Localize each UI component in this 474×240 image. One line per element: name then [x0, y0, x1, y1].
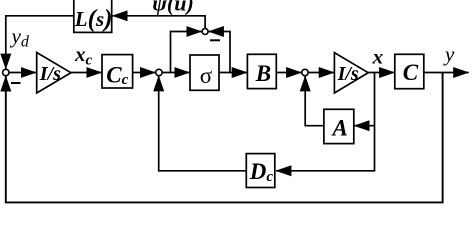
wire S2 output to L(s) input (labeled psi(u)) [112, 16, 205, 29]
integrator T2 (I/s triangle) [334, 53, 368, 93]
summing junction S2 [202, 29, 208, 35]
minus sign at S1 lower input [11, 82, 21, 84]
wire J3 to integrator T2 [308, 72, 334, 74]
svg-text:B: B [255, 61, 271, 86]
wire A output up to junction J3 [305, 76, 324, 126]
wire output y feedback to S1 (outer loop) [6, 73, 443, 203]
minus sign at S2 right input [210, 39, 220, 41]
block Dc [246, 154, 274, 188]
wire J2 to saturation sigma [162, 72, 190, 74]
wire T1 to block Cc [71, 72, 102, 74]
svg-text:ψ(u): ψ(u) [152, 0, 194, 15]
svg-text:σ: σ [200, 63, 213, 88]
wire branch arrow into A [354, 125, 374, 127]
block B [247, 54, 276, 88]
wire L(s) output to summing junction S1 (labeled y_d) [6, 16, 74, 69]
integrator T1 (I/s triangle) [37, 53, 71, 94]
wire S1 to integrator T1 [9, 72, 36, 74]
wire B to junction J3 [276, 72, 301, 74]
svg-text:C: C [403, 60, 419, 85]
junction J2 [156, 69, 162, 75]
wire Dc output up to junction J2 [159, 76, 247, 171]
svg-text:I/s: I/s [337, 63, 359, 85]
wire T2 to block C (labeled x) [368, 72, 394, 74]
output wire y [424, 72, 469, 74]
block A [324, 109, 354, 143]
wire x-state feedback down to Dc [276, 73, 375, 171]
block Cc [102, 55, 133, 89]
saturation block sigma [190, 55, 219, 90]
svg-text:x: x [372, 44, 384, 68]
svg-text:L(s): L(s) [74, 6, 113, 33]
block L(s) [74, 0, 113, 33]
svg-text:y: y [443, 42, 455, 66]
summing junction S1 [3, 69, 9, 75]
wire branch up to summing junction S2 left input [171, 32, 202, 73]
wire sigma to block B [219, 72, 247, 74]
block C [395, 54, 424, 88]
wire sigma output branch up to S2 right input [209, 32, 231, 73]
junction J3 [302, 69, 308, 75]
svg-text:A: A [331, 115, 348, 140]
svg-text:I/s: I/s [39, 63, 61, 85]
wire Cc to junction J2 [133, 72, 156, 74]
